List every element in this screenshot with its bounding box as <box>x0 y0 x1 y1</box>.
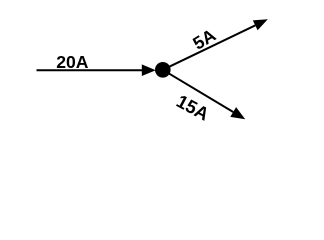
svg-text:20A: 20A <box>56 52 89 72</box>
svg-text:5A: 5A <box>189 25 219 54</box>
node: junction <box>155 62 171 78</box>
wire: incoming 20A branch <box>37 69 144 71</box>
arrowhead: incoming current direction <box>142 64 156 76</box>
wire: outgoing 5A branch <box>163 25 255 69</box>
wire: outgoing 15A branch <box>163 70 233 112</box>
arrowhead: 5A direction <box>253 19 268 30</box>
arrowhead: 15A direction <box>230 107 245 119</box>
